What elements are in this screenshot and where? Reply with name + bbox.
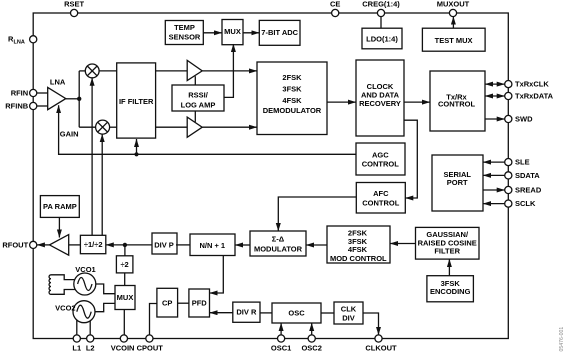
- block 7-BIT ADC: [259, 20, 300, 45]
- oscillator VCO2: [55, 301, 95, 323]
- svg-text:SDATA: SDATA: [515, 171, 540, 180]
- wire MOD CONTROL to sigma-delta: [306, 244, 327, 246]
- wire limiter bottom to RSSI: [194, 111, 196, 122]
- block CP: [157, 288, 178, 317]
- svg-text:DIV: DIV: [342, 314, 355, 323]
- wire PA to RFOUT: [37, 244, 50, 246]
- svg-text:CE: CE: [330, 0, 340, 8]
- wire sigma-delta to N/N+1: [235, 244, 250, 246]
- pin VCOIN: [120, 335, 127, 342]
- svg-text:N/N + 1: N/N + 1: [199, 241, 225, 250]
- svg-text:SREAD: SREAD: [515, 186, 542, 195]
- svg-text:4FSK: 4FSK: [348, 245, 368, 254]
- svg-text:2FSK: 2FSK: [282, 73, 302, 82]
- wire AGC control line: [59, 105, 356, 154]
- svg-text:OSC1: OSC1: [271, 344, 291, 353]
- svg-text:7-BIT ADC: 7-BIT ADC: [261, 28, 298, 37]
- block IF FILTER: [117, 63, 156, 138]
- wire MUX to 7-BIT ADC: [243, 32, 259, 34]
- wire OSC to CLK DIV: [321, 312, 334, 314]
- block DIV P: [152, 233, 177, 254]
- wire TxRxCLK bidirectional: [485, 83, 505, 85]
- wire OSC2 to OSC: [311, 323, 313, 335]
- svg-text:CONTROL: CONTROL: [438, 100, 475, 109]
- wire N/N+1 to PFD: [210, 256, 224, 294]
- svg-text:SWD: SWD: [515, 115, 533, 124]
- pin CLKOUT: [375, 335, 382, 342]
- svg-text:MUX: MUX: [224, 27, 241, 36]
- wire GAUSSIAN FILTER to MOD CONTROL: [390, 243, 415, 245]
- svg-text:LDO(1:4): LDO(1:4): [366, 34, 398, 43]
- block RSSI / LOG AMP: [172, 85, 224, 111]
- block OSC: [272, 303, 321, 323]
- wire TEST MUX to MUXOUT: [452, 17, 454, 29]
- svg-text:SCLK: SCLK: [515, 199, 536, 208]
- wire MIX2 to IF FILTER: [110, 126, 117, 128]
- pin RFINB: [30, 102, 37, 109]
- svg-text:RSSI/: RSSI/: [188, 91, 209, 100]
- wire SLE in: [483, 161, 505, 163]
- pin CE: [332, 9, 339, 16]
- wire L1 to VCO2: [76, 320, 78, 335]
- wire CREG to LDO: [380, 17, 382, 29]
- svg-text:CLKOUT: CLKOUT: [365, 344, 397, 353]
- block FSK MOD CONTROL: [327, 226, 390, 263]
- wire VCO2 to MUX: [95, 303, 115, 311]
- pin CPOUT: [146, 335, 153, 342]
- block CLOCK AND DATA RECOVERY: [356, 60, 404, 136]
- node divider junction: [123, 243, 127, 247]
- pin RLNA: [30, 36, 37, 43]
- svg-text:L2: L2: [86, 344, 95, 353]
- wire junction vertical: [78, 71, 80, 127]
- svg-text:MODULATOR: MODULATOR: [254, 245, 303, 254]
- wire DEMODULATOR to CDR: [327, 101, 356, 103]
- svg-text:CP: CP: [162, 298, 172, 307]
- wire CDR to AFC CONTROL: [404, 120, 417, 198]
- svg-text:ENCODING: ENCODING: [430, 287, 471, 296]
- svg-text:LNA: LNA: [14, 40, 25, 46]
- block divider /1 /2: [80, 235, 105, 253]
- block N/N+1: [190, 234, 235, 256]
- wire RFIN to LNA: [37, 92, 48, 94]
- wire AGC to IF FILTER: [136, 139, 138, 154]
- svg-text:Σ-Δ: Σ-Δ: [272, 235, 285, 244]
- pin TxRxDATA: [505, 92, 512, 99]
- block AGC CONTROL: [356, 143, 405, 175]
- mixer MIX1 (top): [85, 64, 99, 78]
- svg-text:AFC: AFC: [373, 189, 389, 198]
- svg-text:LOG AMP: LOG AMP: [181, 100, 216, 109]
- block PFD: [189, 289, 210, 317]
- svg-text:DIV P: DIV P: [154, 240, 174, 249]
- pin RFIN: [30, 89, 37, 96]
- amp limiter top: [187, 60, 202, 80]
- svg-text:GAIN: GAIN: [60, 130, 79, 139]
- svg-text:CPOUT: CPOUT: [137, 344, 164, 353]
- svg-text:05476-001: 05476-001: [559, 327, 565, 352]
- block LDO(1:4): [362, 28, 402, 49]
- block GAUSSIAN / RAISED COSINE FILTER: [416, 227, 480, 259]
- wire junction to MIX2: [79, 126, 96, 128]
- svg-text:RSET: RSET: [64, 0, 84, 8]
- svg-text:DIV R: DIV R: [236, 307, 257, 316]
- mixer MIX2 (bottom): [96, 120, 110, 134]
- svg-text:RFINB: RFINB: [5, 102, 28, 111]
- pin OSC1: [278, 335, 285, 342]
- wire OSC to DIV R: [260, 312, 272, 314]
- pin TxRxCLK: [505, 81, 512, 88]
- wire limiter top to DEMODULATOR: [202, 70, 257, 72]
- svg-text:IF FILTER: IF FILTER: [119, 97, 154, 106]
- svg-text:LNA: LNA: [50, 78, 66, 87]
- oscillator VCO1: [74, 265, 96, 295]
- svg-text:L1: L1: [72, 344, 81, 353]
- block PA RAMP: [40, 196, 79, 218]
- wire LO to MIX1: [91, 78, 93, 236]
- amp PA: [50, 235, 69, 256]
- block MUX (VCO mux): [115, 286, 135, 310]
- block 3FSK ENCODING: [427, 276, 474, 302]
- svg-text:CLK: CLK: [341, 304, 357, 313]
- pin SWD: [505, 115, 512, 122]
- block DEMODULATOR: [257, 62, 327, 135]
- svg-text:OSC2: OSC2: [301, 344, 321, 353]
- svg-text:SLE: SLE: [515, 158, 530, 167]
- svg-text:CONTROL: CONTROL: [362, 198, 399, 207]
- node AGC junction: [134, 152, 138, 156]
- svg-text:TEMP: TEMP: [174, 23, 195, 32]
- wire TEMP SENSOR to MUX: [203, 32, 222, 34]
- svg-text:PFD: PFD: [192, 299, 208, 308]
- wire N/N+1 to DIV P: [176, 244, 190, 246]
- svg-text:TxRxDATA: TxRxDATA: [515, 92, 554, 101]
- chip outer border: [33, 13, 508, 339]
- svg-text:MOD CONTROL: MOD CONTROL: [330, 254, 387, 263]
- wire divider to PA: [69, 244, 81, 246]
- block sigma-delta MODULATOR: [250, 231, 306, 256]
- wire SREAD out: [483, 189, 505, 191]
- svg-text:SENSOR: SENSOR: [169, 33, 201, 42]
- wire 3FSK ENCODING to GAUSSIAN FILTER: [448, 259, 450, 276]
- wire CDR to TxRx CONTROL: [404, 101, 430, 103]
- pin CREG(1:4): [377, 9, 384, 16]
- pin L2: [87, 335, 94, 342]
- wire LNA output: [66, 98, 79, 100]
- wire SDATA in: [483, 174, 505, 176]
- wire SWD out: [485, 118, 505, 120]
- wire VCO1 to MUX: [96, 284, 115, 294]
- pin RFOUT: [30, 241, 37, 248]
- svg-text:÷2: ÷2: [120, 260, 128, 269]
- svg-text:RFOUT: RFOUT: [2, 240, 28, 249]
- wire L2 to VCO2: [89, 321, 91, 335]
- wire DIV P to divider: [106, 244, 152, 246]
- svg-text:CONTROL: CONTROL: [362, 159, 399, 168]
- block TEST MUX: [422, 28, 485, 51]
- wire PA RAMP to PA: [58, 217, 60, 237]
- wire TxRxDATA bidirectional: [485, 95, 505, 97]
- amp limiter bottom: [187, 117, 202, 137]
- svg-text:MUX: MUX: [117, 293, 134, 302]
- amp LNA: [48, 78, 66, 110]
- wire OSC1 to OSC: [280, 323, 282, 335]
- svg-text:VCOIN: VCOIN: [111, 344, 135, 353]
- svg-text:3FSK: 3FSK: [282, 85, 302, 94]
- wire PFD to CP: [178, 302, 189, 304]
- svg-text:VCO1: VCO1: [75, 265, 95, 274]
- pin MUXOUT: [449, 9, 456, 16]
- block MUX (ADC input mux): [222, 20, 243, 45]
- wire limiter bottom to DEMODULATOR: [202, 126, 257, 128]
- svg-text:RFIN: RFIN: [11, 89, 29, 98]
- wire CP to CPOUT: [150, 304, 157, 335]
- block divider /2: [116, 256, 132, 273]
- block SERIAL PORT: [432, 155, 483, 211]
- svg-text:PA RAMP: PA RAMP: [43, 202, 77, 211]
- wire DIV R to PFD: [210, 312, 233, 314]
- svg-text:FILTER: FILTER: [434, 247, 460, 256]
- pin SREAD: [505, 186, 512, 193]
- svg-text:DEMODULATOR: DEMODULATOR: [263, 106, 322, 115]
- block AFC CONTROL: [356, 183, 405, 214]
- wire junction to MIX1: [79, 70, 85, 72]
- svg-text:4FSK: 4FSK: [282, 96, 302, 105]
- svg-text:TxRxCLK: TxRxCLK: [515, 80, 549, 89]
- wire IF FILTER to limiter bottom: [156, 126, 188, 128]
- wire div2 to VCO MUX: [124, 273, 126, 286]
- svg-text:CREG(1:4): CREG(1:4): [362, 0, 400, 8]
- block DIV R: [233, 302, 260, 322]
- block Tx/Rx CONTROL: [430, 71, 485, 131]
- node LNA output junction: [77, 97, 81, 101]
- wire RFINB to LNA: [37, 105, 48, 107]
- pin OSC2: [308, 335, 315, 342]
- pin SCLK: [505, 200, 512, 207]
- svg-text:RECOVERY: RECOVERY: [359, 99, 401, 108]
- svg-text:MUXOUT: MUXOUT: [437, 0, 470, 8]
- svg-text:VCO2: VCO2: [55, 304, 75, 313]
- pin L1: [73, 335, 80, 342]
- pin RSET: [71, 9, 78, 16]
- wire CLK DIV to CLKOUT: [363, 313, 379, 335]
- pin SDATA: [505, 172, 512, 179]
- wire LO to MIX2: [101, 134, 103, 235]
- wire IF FILTER to limiter top: [156, 70, 188, 72]
- wire junction to div2: [124, 245, 126, 256]
- inductor L (external tank): [49, 275, 75, 295]
- block TEMP SENSOR: [165, 21, 203, 45]
- wire AFC to sigma-delta: [278, 197, 356, 231]
- svg-text:÷1/÷2: ÷1/÷2: [84, 240, 103, 249]
- wire RSSI to MUX: [224, 44, 233, 97]
- wire limiter top to RSSI: [194, 76, 196, 85]
- svg-text:TEST MUX: TEST MUX: [435, 36, 473, 45]
- wire MIX1 to IF FILTER: [99, 70, 117, 72]
- svg-text:PORT: PORT: [447, 178, 468, 187]
- wire SCLK in: [483, 203, 505, 205]
- wire VCO MUX to VCOIN: [123, 310, 125, 335]
- svg-text:AGC: AGC: [372, 150, 389, 159]
- svg-text:OSC: OSC: [288, 309, 305, 318]
- block CLK DIV: [334, 302, 363, 324]
- pin SLE: [505, 159, 512, 166]
